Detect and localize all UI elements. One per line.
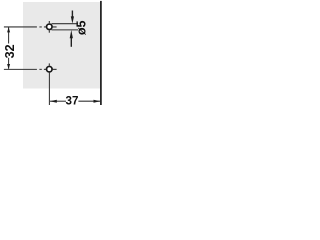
dimension ø5: vertical dimension line above (with down arrow) bbox=[71, 11, 73, 18]
lower screw hole ø5 (ring) bbox=[47, 66, 53, 72]
lower hole crosshair ticks bbox=[44, 63, 57, 69]
dimension ø5: vertical dimension line below (with up arrow) bbox=[70, 37, 72, 47]
dimension 37: right arrowhead (pointing right) bbox=[94, 100, 101, 103]
upper screw hole ø5 (ring) bbox=[47, 24, 53, 30]
extension line from lower hole down to 37-dimension bbox=[48, 72, 50, 105]
dimension ø5: lower arrowhead (pointing up) bbox=[70, 30, 73, 38]
plate body (light gray mounting plate, top view) bbox=[23, 2, 101, 89]
dimension 32: vertical dimension line (left), split around the text bbox=[8, 27, 10, 68]
dimension ø5: lower extension line (tangent to hole bottom) bbox=[52, 29, 79, 31]
svg-text:32: 32 bbox=[3, 44, 17, 58]
dimension 32: lower arrowhead (pointing down) bbox=[7, 64, 10, 69]
dimension ø5: upper arrowhead (pointing down) bbox=[71, 16, 74, 23]
svg-text:ø5: ø5 bbox=[75, 20, 89, 35]
dimension ø5: upper extension line (tangent to hole top) bbox=[52, 23, 79, 25]
dimension 37: left arrowhead (pointing left) bbox=[50, 100, 57, 103]
dimension 32: upper arrowhead (pointing up) bbox=[7, 27, 10, 32]
svg-text:37: 37 bbox=[66, 94, 79, 107]
plate front edge (thick right border, also 37-dim extension line) bbox=[100, 1, 102, 105]
center line of lower hole (dash-dot, horizontal) bbox=[4, 68, 42, 70]
upper hole crosshair ticks bbox=[44, 21, 57, 33]
dimension 37: horizontal dimension line, split around the text bbox=[50, 100, 100, 102]
center line of upper hole (dash-dot, horizontal) bbox=[4, 26, 42, 28]
